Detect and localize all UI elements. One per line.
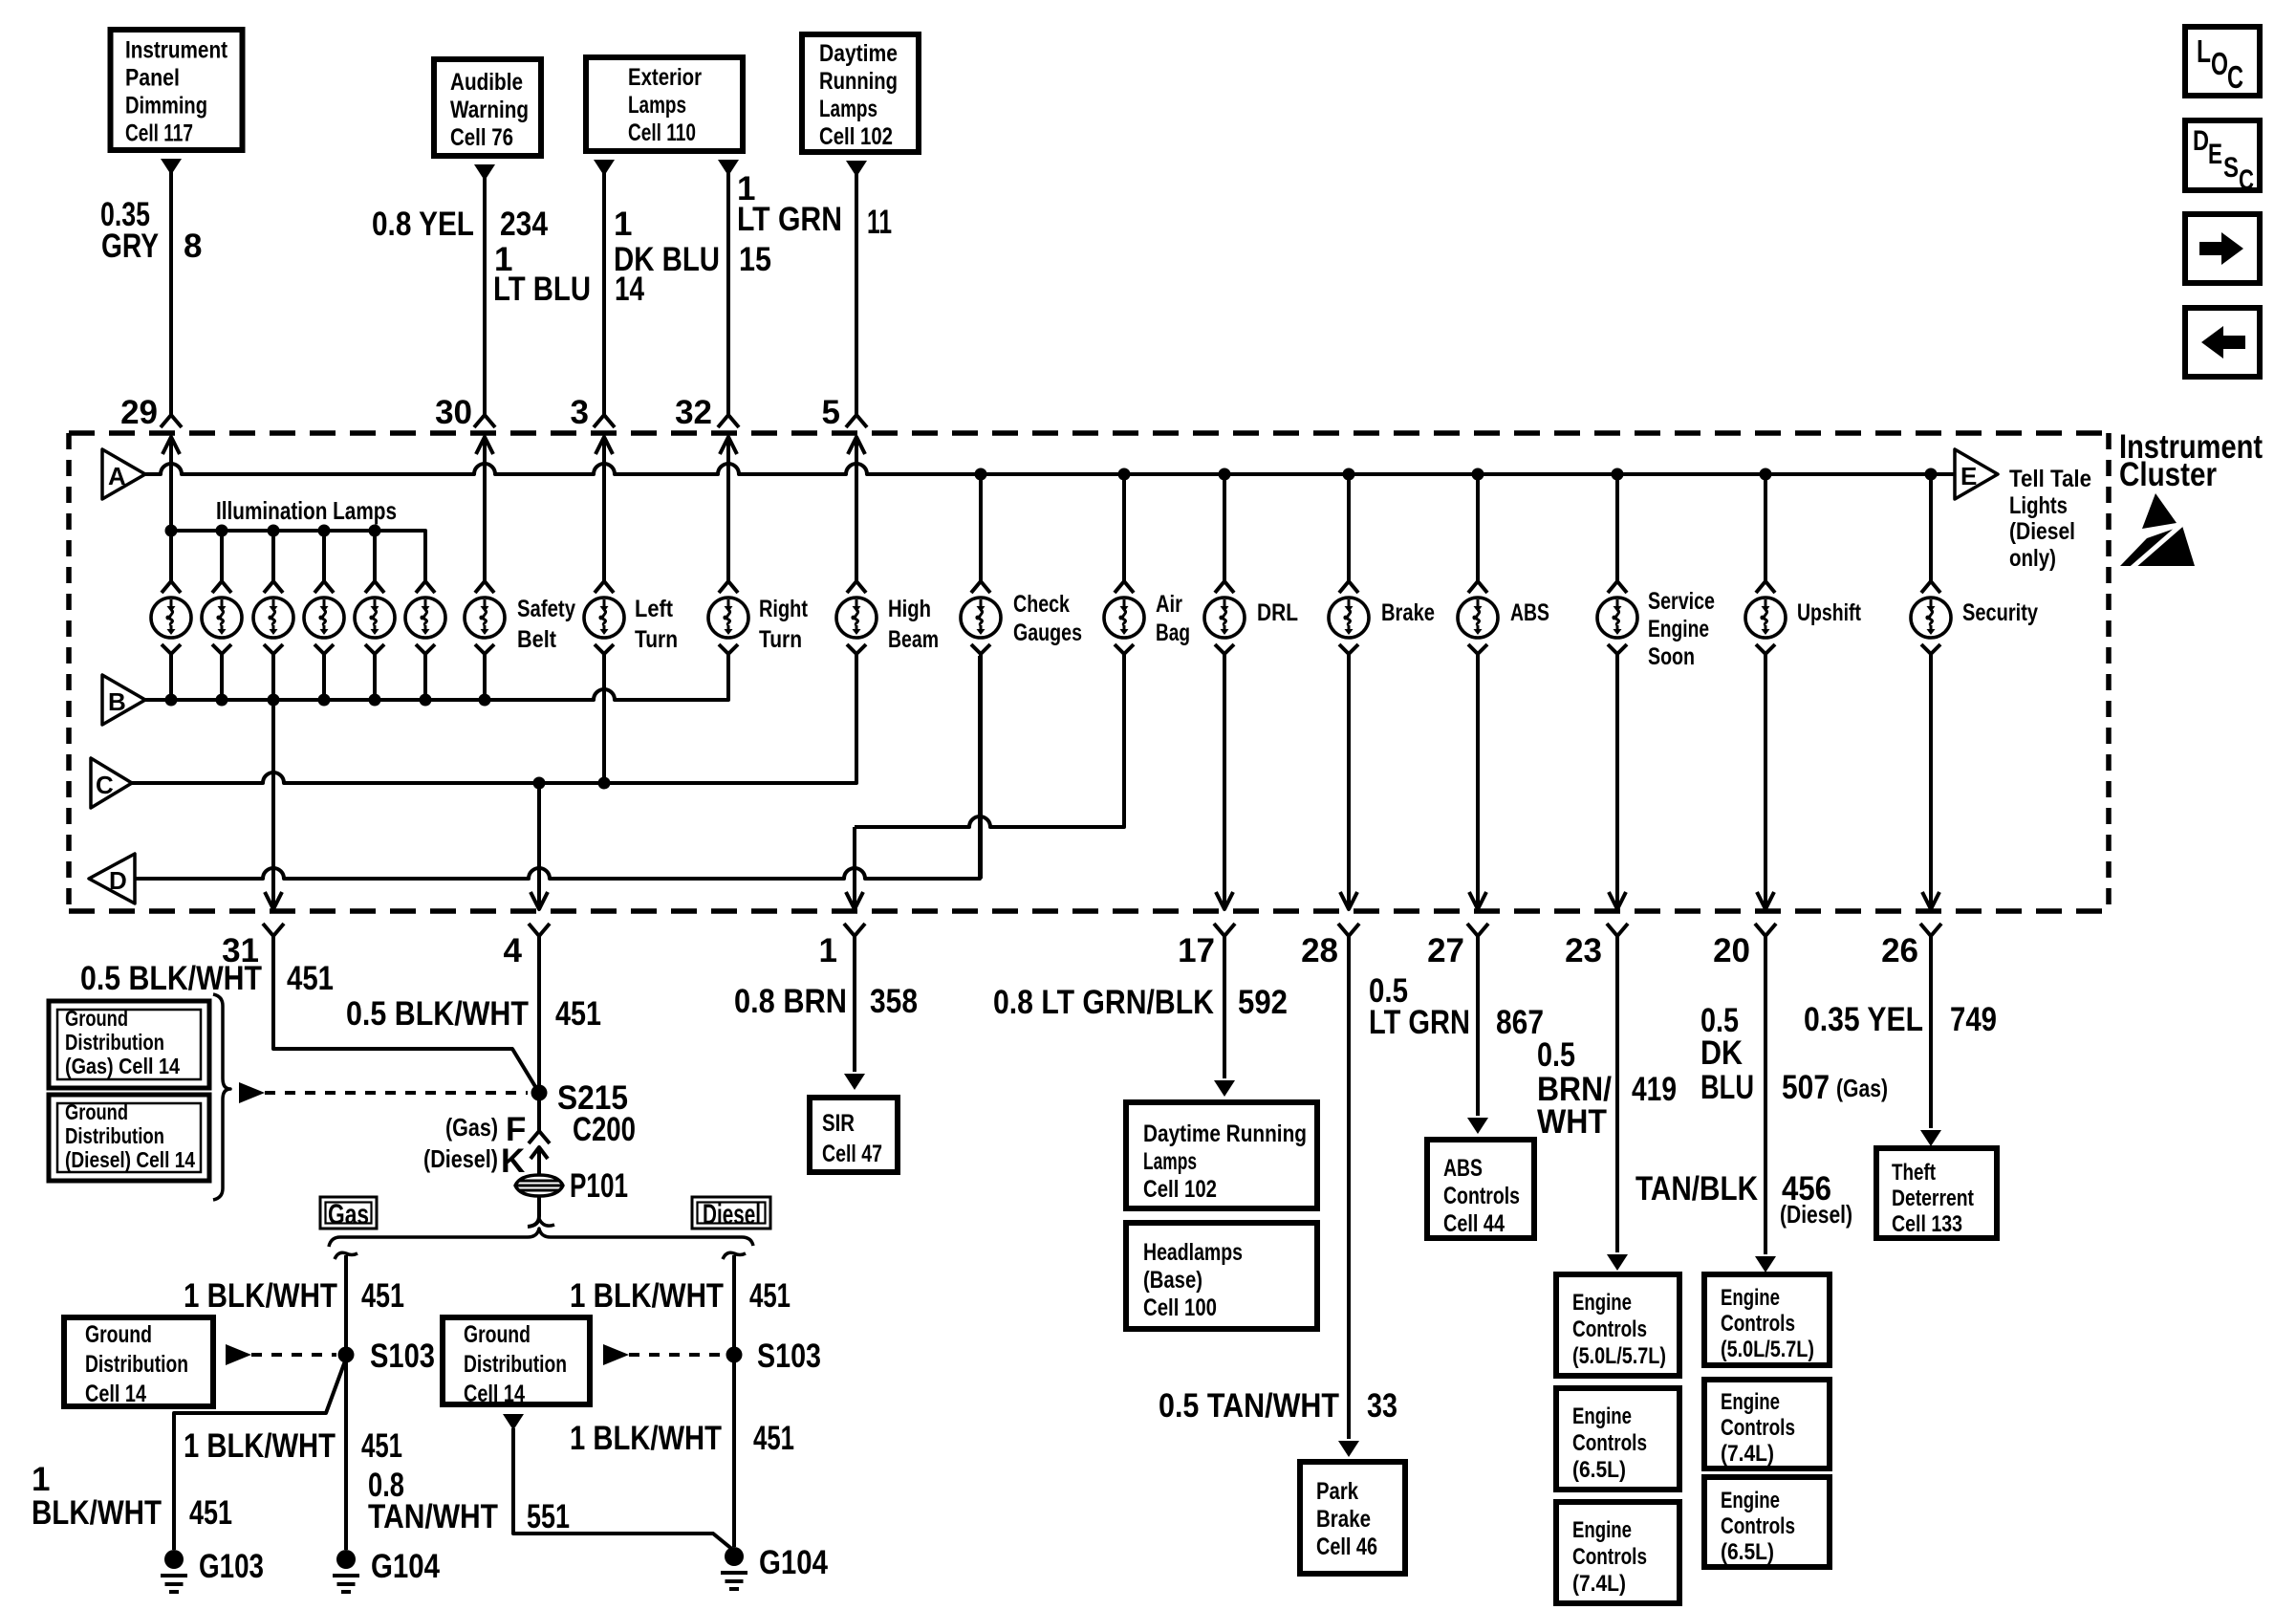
illumination lamp 6 <box>423 531 427 581</box>
svg-text:C: C <box>2227 59 2243 95</box>
svg-text:Dimming: Dimming <box>125 93 207 120</box>
box: Headlamps (Base) Cell 100 <box>1126 1223 1317 1329</box>
svg-text:Diesel: Diesel <box>703 1199 761 1230</box>
wire gas branch 1 BLK/WHT 451 <box>344 1255 348 1355</box>
svg-text:WHT: WHT <box>1537 1103 1607 1141</box>
svg-text:TAN/WHT: TAN/WHT <box>368 1498 498 1535</box>
wire 0.5 TAN/WHT 33 to Park Brake <box>1347 948 1351 1439</box>
svg-text:(6.5L): (6.5L) <box>1721 1539 1774 1565</box>
svg-text:Distribution: Distribution <box>65 1030 164 1055</box>
svg-text:749: 749 <box>1950 1001 1997 1038</box>
connector triangle D <box>89 854 135 903</box>
svg-text:358: 358 <box>870 983 918 1020</box>
svg-text:Cell 102: Cell 102 <box>1143 1176 1217 1203</box>
svg-text:LT GRN: LT GRN <box>1369 1004 1470 1041</box>
svg-text:Right: Right <box>759 596 809 622</box>
ground G104 (left) <box>336 1550 356 1569</box>
svg-text:ABS: ABS <box>1510 599 1549 626</box>
svg-text:Cell 100: Cell 100 <box>1143 1295 1217 1321</box>
svg-text:G104: G104 <box>371 1548 440 1585</box>
svg-text:Brake: Brake <box>1316 1506 1371 1533</box>
svg-text:Engine: Engine <box>1648 616 1709 642</box>
svg-text:1: 1 <box>32 1461 50 1498</box>
svg-text:(Diesel: (Diesel <box>2009 518 2075 545</box>
svg-text:Illumination Lamps: Illumination Lamps <box>216 496 397 525</box>
box tag Gas <box>320 1197 377 1229</box>
box: Audible Warning Cell 76 <box>434 59 541 156</box>
wire pin 26 exit (0.35 YEL 749) <box>1922 892 1939 909</box>
lamp ABS <box>1476 474 1480 581</box>
svg-text:Cluster: Cluster <box>2119 456 2217 493</box>
illumination lamp 2 <box>220 531 224 581</box>
box: Ground Distribution (Diesel) Cell 14 <box>49 1095 209 1181</box>
wire pin 17 exit (0.8 LT GRN/BLK 592) <box>1216 892 1233 909</box>
svg-text:29: 29 <box>120 394 158 431</box>
wire pin 1 exit (0.8 BRN 358) <box>846 892 863 909</box>
svg-text:0.8 BRN: 0.8 BRN <box>734 983 847 1020</box>
svg-text:TAN/BLK: TAN/BLK <box>1635 1170 1758 1207</box>
svg-text:Panel: Panel <box>125 65 180 92</box>
svg-text:0.35 YEL: 0.35 YEL <box>1804 1001 1923 1038</box>
svg-text:Distribution: Distribution <box>85 1351 188 1378</box>
svg-text:Left: Left <box>635 596 674 622</box>
illumination lamp 3 <box>271 531 275 581</box>
svg-text:Soon: Soon <box>1648 643 1695 670</box>
svg-text:O: O <box>2211 46 2228 81</box>
svg-text:20: 20 <box>1713 932 1750 969</box>
svg-text:419: 419 <box>1632 1071 1677 1108</box>
wire 0.8 TAN/WHT 551 from Ground Distribution <box>503 1414 524 1430</box>
svg-text:D: D <box>2193 125 2209 157</box>
svg-text:Safety: Safety <box>517 596 575 622</box>
wire pin 4 to S215 <box>537 948 541 1131</box>
wire pin 1 vertical <box>853 827 856 909</box>
svg-text:Lights: Lights <box>2009 492 2068 519</box>
svg-text:Controls: Controls <box>1572 1316 1647 1342</box>
svg-text:Cell 14: Cell 14 <box>85 1381 146 1407</box>
ground G104 (right) <box>725 1547 744 1566</box>
wire 0.5 BLK/WHT 451 to S215 <box>273 948 539 1093</box>
svg-text:Daytime Running: Daytime Running <box>1143 1120 1307 1147</box>
svg-text:4: 4 <box>504 932 523 969</box>
splice S103 (right) <box>726 1347 743 1363</box>
svg-text:(Gas) Cell 14: (Gas) Cell 14 <box>65 1054 180 1078</box>
svg-text:451: 451 <box>361 1277 404 1315</box>
illumination lamp 1 <box>169 473 173 581</box>
illumination lamps bus <box>171 531 425 581</box>
wire: 1 LT GRN 15 from Exterior Lamps to pin 32 <box>718 160 739 176</box>
svg-text:28: 28 <box>1301 932 1338 969</box>
svg-text:451: 451 <box>287 960 334 997</box>
svg-text:Engine: Engine <box>1572 1403 1632 1429</box>
wire TAN/BLK 456 to Engine Controls <box>1764 948 1767 1254</box>
svg-text:Cell 76: Cell 76 <box>450 124 513 151</box>
svg-text:(5.0L/5.7L): (5.0L/5.7L) <box>1572 1343 1666 1369</box>
svg-text:Daytime: Daytime <box>819 40 898 67</box>
connector C200 terminals <box>529 1131 550 1143</box>
wire pin 20 exit <box>1757 892 1774 909</box>
svg-text:DRL: DRL <box>1257 599 1298 626</box>
svg-text:592: 592 <box>1238 984 1288 1021</box>
svg-text:Engine: Engine <box>1721 1285 1780 1311</box>
svg-text:551: 551 <box>527 1498 570 1535</box>
wire: 0.8 YEL 234 / 1 LT BLU from Audible Warning to pin 30 <box>474 164 495 181</box>
illumination lamp 5 <box>373 531 377 581</box>
svg-text:Ground: Ground <box>65 1099 128 1124</box>
lamp DRL <box>1223 474 1226 581</box>
lamp Upshift <box>1764 474 1767 581</box>
svg-text:Gas: Gas <box>328 1199 369 1230</box>
instrument cluster dashed border <box>69 430 2109 436</box>
svg-text:Cell 14: Cell 14 <box>464 1381 525 1407</box>
svg-text:27: 27 <box>1427 932 1464 969</box>
svg-text:Security: Security <box>1962 599 2038 626</box>
lamp Left Turn <box>602 473 606 581</box>
wire pin 31 exit (0.5 BLK/WHT 451) <box>265 892 282 909</box>
svg-text:K: K <box>501 1142 525 1180</box>
ESD sensitivity symbol <box>2142 493 2177 529</box>
svg-text:ABS: ABS <box>1443 1155 1483 1182</box>
svg-text:0.5 BLK/WHT: 0.5 BLK/WHT <box>346 995 529 1033</box>
wire: 0.35 GRY 8 from Instrument Panel Dimming to pin 29 <box>161 159 182 175</box>
svg-text:Lamps: Lamps <box>628 92 686 119</box>
lamp Brake <box>1347 474 1351 581</box>
svg-text:Brake: Brake <box>1381 599 1435 626</box>
svg-text:Ground: Ground <box>464 1321 531 1348</box>
brace splitting Gas and Diesel branches <box>329 1229 753 1247</box>
svg-text:B: B <box>108 687 126 716</box>
svg-text:451: 451 <box>749 1277 791 1315</box>
wire to G103 <box>174 1359 346 1550</box>
svg-text:(7.4L): (7.4L) <box>1572 1571 1626 1597</box>
svg-text:Gauges: Gauges <box>1013 620 1082 646</box>
svg-text:0.5 TAN/WHT: 0.5 TAN/WHT <box>1159 1387 1339 1425</box>
svg-text:(Gas): (Gas) <box>445 1113 498 1142</box>
lamp Right Turn <box>726 473 730 581</box>
svg-text:Controls: Controls <box>1721 1311 1795 1337</box>
wire pin 4 vertical <box>537 783 541 909</box>
svg-text:Distribution: Distribution <box>65 1123 164 1148</box>
svg-text:Warning: Warning <box>450 97 529 123</box>
svg-text:1: 1 <box>614 206 632 243</box>
dashed reference arrow to S215 <box>239 1082 265 1103</box>
illumination lamp 4 <box>322 531 326 581</box>
connector triangle C <box>91 758 132 808</box>
svg-text:Ground: Ground <box>85 1321 152 1348</box>
svg-text:Controls: Controls <box>1572 1544 1647 1570</box>
svg-text:451: 451 <box>753 1420 794 1457</box>
svg-text:Park: Park <box>1316 1478 1358 1505</box>
box: Exterior Lamps Cell 110 <box>586 57 743 151</box>
svg-text:Turn: Turn <box>759 626 802 653</box>
svg-text:P101: P101 <box>570 1167 628 1205</box>
svg-text:High: High <box>888 596 931 622</box>
svg-text:Service: Service <box>1648 588 1715 615</box>
svg-text:(Gas): (Gas) <box>1836 1074 1888 1102</box>
svg-text:Cell 117: Cell 117 <box>125 120 193 147</box>
svg-text:Running: Running <box>819 68 898 95</box>
brace for ground distribution boxes <box>213 994 230 1200</box>
svg-text:Controls: Controls <box>1721 1415 1795 1441</box>
svg-text:Instrument: Instrument <box>125 37 228 64</box>
wire pin 31 vertical <box>271 700 275 909</box>
svg-text:15: 15 <box>739 241 771 278</box>
svg-text:8: 8 <box>184 228 202 265</box>
splice S215 <box>531 1085 548 1101</box>
box tag Diesel <box>692 1197 770 1229</box>
svg-text:LT BLU: LT BLU <box>493 271 591 308</box>
svg-text:Controls: Controls <box>1572 1430 1647 1456</box>
svg-text:Headlamps: Headlamps <box>1143 1239 1243 1266</box>
svg-text:BLU: BLU <box>1700 1069 1754 1106</box>
svg-text:Engine: Engine <box>1721 1488 1780 1513</box>
connector triangle A <box>102 449 145 499</box>
svg-text:Upshift: Upshift <box>1797 599 1862 626</box>
box: Ground Distribution Cell 14 (left) <box>64 1317 213 1406</box>
bus wire B <box>145 656 728 700</box>
lamp Service Engine Soon <box>1615 474 1619 581</box>
svg-text:30: 30 <box>435 394 472 431</box>
diesel branch hook <box>723 1252 746 1259</box>
svg-text:Tell Tale: Tell Tale <box>2009 466 2091 492</box>
legend box right-arrow <box>2185 214 2260 283</box>
svg-text:1 BLK/WHT: 1 BLK/WHT <box>570 1420 722 1457</box>
ground G103 <box>164 1550 184 1569</box>
wire below P101 <box>528 1201 539 1227</box>
box: SIR Cell 47 <box>810 1098 898 1172</box>
svg-text:14: 14 <box>615 271 644 308</box>
lamp Safety Belt <box>483 473 487 581</box>
svg-text:32: 32 <box>675 394 712 431</box>
svg-text:Engine: Engine <box>1572 1290 1632 1316</box>
wire pin 28 exit (0.5 LT GRN 867) <box>1340 892 1357 909</box>
svg-text:Engine: Engine <box>1572 1517 1632 1543</box>
svg-text:S: S <box>2223 152 2239 184</box>
svg-text:Lamps: Lamps <box>1143 1148 1197 1175</box>
svg-text:17: 17 <box>1178 932 1215 969</box>
lamp Check Gauges <box>979 474 983 581</box>
svg-text:234: 234 <box>500 206 548 243</box>
lamp Air Bag <box>1122 474 1126 581</box>
svg-text:G103: G103 <box>199 1548 264 1585</box>
svg-text:Beam: Beam <box>888 626 939 653</box>
box: Engine Controls (5.0L/5.7L) right <box>1704 1274 1830 1365</box>
svg-text:Theft: Theft <box>1892 1160 1936 1186</box>
svg-text:Lamps: Lamps <box>819 96 877 122</box>
box: ABS Controls Cell 44 <box>1427 1140 1534 1238</box>
dashed reference arrow to left S103 <box>226 1344 251 1365</box>
box: Park Brake Cell 46 <box>1300 1462 1405 1574</box>
box: Theft Deterrent Cell 133 <box>1876 1148 1997 1238</box>
svg-text:1 BLK/WHT: 1 BLK/WHT <box>570 1277 724 1315</box>
svg-text:Cell 47: Cell 47 <box>822 1141 882 1167</box>
box: Ground Distribution (Gas) Cell 14 <box>49 1001 209 1088</box>
box: Engine Controls (6.5L) left <box>1556 1388 1679 1490</box>
svg-text:Cell 102: Cell 102 <box>819 123 893 150</box>
svg-text:GRY: GRY <box>101 228 159 265</box>
svg-text:3: 3 <box>571 394 589 431</box>
connector triangle B <box>102 675 145 725</box>
lamp Security <box>1929 474 1933 581</box>
svg-text:DK: DK <box>1700 1034 1743 1072</box>
svg-text:S103: S103 <box>370 1338 435 1375</box>
connector triangle E <box>1955 449 1998 499</box>
dashed reference arrow to right S103 <box>603 1344 629 1365</box>
wire pin 4 exit (0.5 BLK/WHT 451) <box>531 892 548 909</box>
svg-text:C: C <box>96 771 114 799</box>
svg-text:G104: G104 <box>759 1544 828 1581</box>
legend box LOC <box>2185 27 2260 96</box>
bus wire C <box>132 656 856 783</box>
svg-text:Ground: Ground <box>65 1006 128 1031</box>
svg-text:11: 11 <box>867 204 892 241</box>
svg-text:507: 507 <box>1782 1069 1830 1106</box>
svg-text:Turn: Turn <box>635 626 678 653</box>
box: Instrument Panel Dimming Cell 117 <box>111 30 243 150</box>
box: Engine Controls (5.0L/5.7L) left <box>1556 1274 1679 1376</box>
svg-text:(6.5L): (6.5L) <box>1572 1457 1626 1483</box>
svg-text:LT GRN: LT GRN <box>737 201 842 238</box>
svg-text:only): only) <box>2009 545 2056 572</box>
wire 0.8 LT GRN/BLK 592 <box>1223 948 1226 1078</box>
svg-text:Audible: Audible <box>450 69 523 96</box>
svg-text:26: 26 <box>1881 932 1918 969</box>
svg-text:(Diesel) Cell 14: (Diesel) Cell 14 <box>65 1147 195 1172</box>
svg-text:33: 33 <box>1367 1387 1397 1425</box>
svg-text:Cell 110: Cell 110 <box>628 120 696 146</box>
wire elbow to pin 1 and Air Bag <box>855 656 1124 827</box>
svg-text:A: A <box>108 462 126 490</box>
wire 0.5 LT GRN 867 to ABS Controls <box>1476 948 1480 1116</box>
gas branch hook <box>335 1252 357 1259</box>
wire S103 to G104 (right) <box>732 1355 736 1547</box>
svg-text:0.8 LT GRN/BLK: 0.8 LT GRN/BLK <box>993 984 1214 1021</box>
legend box left-arrow <box>2185 308 2260 377</box>
box: Engine Controls (7.4L) left <box>1556 1502 1679 1603</box>
box: Engine Controls (6.5L) right <box>1704 1477 1830 1567</box>
svg-text:E: E <box>1960 462 1977 490</box>
svg-text:SIR: SIR <box>822 1110 855 1137</box>
lamp High Beam <box>855 473 858 581</box>
box: Daytime Running Lamps Cell 102 <box>802 34 919 152</box>
svg-text:L: L <box>2197 33 2211 69</box>
svg-text:Exterior: Exterior <box>628 64 702 91</box>
svg-text:C200: C200 <box>573 1111 636 1148</box>
wire 0.5 BRN/WHT 419 to Engine Controls <box>1615 948 1619 1252</box>
svg-text:Check: Check <box>1013 591 1070 618</box>
svg-text:Engine: Engine <box>1721 1389 1780 1415</box>
svg-text:(Diesel): (Diesel) <box>1780 1200 1852 1229</box>
svg-text:Deterrent: Deterrent <box>1892 1186 1974 1211</box>
svg-text:0.8 YEL: 0.8 YEL <box>372 206 474 243</box>
box: Engine Controls (7.4L) right <box>1704 1380 1830 1469</box>
svg-text:Cell 133: Cell 133 <box>1892 1211 1962 1237</box>
box: Daytime Running Lamps Cell 102 <box>1126 1102 1317 1208</box>
svg-text:Bag: Bag <box>1156 620 1190 646</box>
svg-text:5: 5 <box>822 394 840 431</box>
box: Ground Distribution Cell 14 (right) <box>443 1317 590 1404</box>
bus wire D <box>135 656 980 879</box>
wire: 1 DK BLU 14 from Exterior Lamps to pin 3 <box>594 160 615 176</box>
legend box DESC <box>2185 120 2260 190</box>
wire 0.8 BRN 358 to SIR <box>853 948 856 1072</box>
svg-text:0.5: 0.5 <box>1537 1036 1575 1074</box>
svg-text:451: 451 <box>361 1427 402 1465</box>
wire pin 23 exit <box>1609 892 1626 909</box>
svg-text:Distribution: Distribution <box>464 1351 567 1378</box>
wire 0.35 YEL 749 to Theft Deterrent <box>1929 948 1933 1128</box>
svg-text:451: 451 <box>555 995 601 1033</box>
svg-text:23: 23 <box>1565 932 1602 969</box>
wire diesel branch 1 BLK/WHT 451 <box>732 1255 736 1355</box>
svg-text:Controls: Controls <box>1443 1183 1520 1209</box>
svg-text:D: D <box>109 866 127 895</box>
splice S103 (left) <box>338 1347 355 1363</box>
svg-text:Cell 44: Cell 44 <box>1443 1210 1505 1237</box>
grommet P101 <box>515 1175 563 1196</box>
svg-text:(Base): (Base) <box>1143 1267 1202 1294</box>
svg-text:S103: S103 <box>757 1338 821 1375</box>
svg-text:Air: Air <box>1156 591 1182 618</box>
bus wire A <box>145 464 1955 474</box>
svg-text:1: 1 <box>819 932 837 969</box>
svg-text:Cell 46: Cell 46 <box>1316 1534 1377 1560</box>
svg-text:Controls: Controls <box>1721 1513 1795 1539</box>
svg-text:E: E <box>2208 139 2222 170</box>
svg-text:1 BLK/WHT: 1 BLK/WHT <box>184 1427 336 1465</box>
wire pin 27 exit <box>1469 892 1486 909</box>
wire: 11 from Daytime Running Lamps to pin 5 <box>846 161 867 177</box>
svg-text:(5.0L/5.7L): (5.0L/5.7L) <box>1721 1337 1814 1362</box>
svg-text:C: C <box>2239 164 2254 196</box>
svg-text:BLK/WHT: BLK/WHT <box>32 1494 162 1532</box>
svg-text:1 BLK/WHT: 1 BLK/WHT <box>184 1277 337 1315</box>
svg-text:Belt: Belt <box>517 626 557 653</box>
svg-text:451: 451 <box>189 1494 232 1532</box>
svg-text:0.5 BLK/WHT: 0.5 BLK/WHT <box>80 960 262 997</box>
svg-text:(Diesel): (Diesel) <box>423 1144 498 1173</box>
wire S103 to G104 (left) <box>344 1355 348 1550</box>
svg-text:(7.4L): (7.4L) <box>1721 1441 1774 1467</box>
